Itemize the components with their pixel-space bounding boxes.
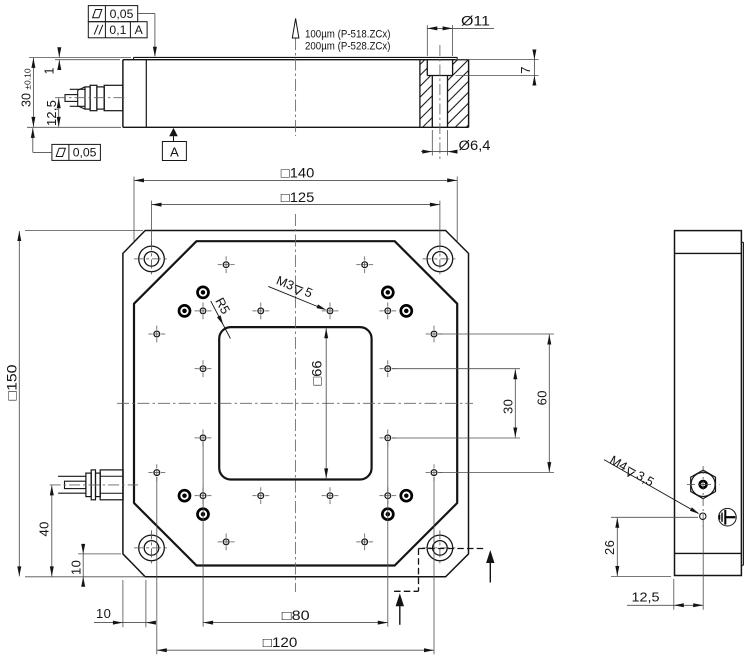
dim O11 extensions [426, 25, 428, 56]
svg-text:0,05: 0,05 [73, 146, 97, 160]
travel direction arrow [292, 19, 299, 39]
top view: vertical centerline [294, 214, 296, 592]
right view: air fitting hexagon [691, 470, 716, 499]
M3 hole (40,15) [385, 435, 391, 441]
counterbored hole (-40,-48) [198, 287, 209, 298]
corner screw hole 3 [139, 535, 165, 561]
svg-text:30: 30 [501, 399, 516, 414]
svg-text:12,5: 12,5 [44, 100, 59, 126]
dim 12.5 (side) [58, 98, 60, 127]
motion arrow bottom [399, 605, 401, 625]
svg-text:0,05: 0,05 [110, 7, 134, 21]
corner screw hole 4 [427, 535, 453, 561]
svg-text:26: 26 [602, 540, 617, 555]
M3 hole (30,60) [362, 539, 368, 545]
svg-text:□125: □125 [281, 190, 315, 205]
counterbored hole (48,40) [401, 490, 412, 501]
M3 hole (40,40) [385, 493, 391, 499]
reference dashes (corner screw datum) [419, 548, 484, 550]
svg-text:100µm (P-518.ZCx): 100µm (P-518.ZCx) [305, 28, 391, 40]
dim box125 [152, 204, 440, 206]
dim box120 extensions [156, 477, 158, 654]
dim box150 extensions [25, 230, 143, 232]
M3 hole (60,30) [431, 470, 437, 476]
dim 12.5 extensions [673, 579, 675, 610]
svg-text:0,1: 0,1 [109, 23, 126, 37]
dim 30 right [514, 369, 516, 437]
side view: connector rings [85, 87, 90, 109]
flatness frame leader [33, 151, 52, 153]
M3 hole (-40,40) [200, 493, 206, 499]
side view: through hole O6.4 walls [431, 76, 433, 128]
feature control frame (flatness 0.05 / parallelism 0.1 A) [88, 6, 147, 38]
dim 1 extension lower [55, 59, 120, 61]
dim 10 vertical [82, 546, 84, 554]
top view: connector rings [86, 473, 91, 497]
counterbored hole (48,-40) [401, 305, 412, 316]
M3 hole (-30,60) [223, 539, 229, 545]
dim 60 right [548, 335, 550, 473]
dim box66 (aperture) [325, 328, 327, 478]
M3 hole (-60,30) [154, 470, 160, 476]
dim 7 [533, 53, 535, 82]
leader M4 depth 3.5 [604, 460, 698, 514]
right view: body outline [675, 231, 742, 576]
dim 10 vertical extension [78, 553, 121, 555]
side view: hole centerline [439, 45, 441, 160]
dim box140 [134, 179, 457, 181]
svg-text:□150: □150 [5, 365, 20, 401]
dim box80 [203, 622, 388, 624]
top view: connector cables [58, 475, 86, 477]
right view: bottom chamfer edge [675, 552, 742, 554]
side view: section hatching [420, 60, 427, 128]
dim box120 [157, 649, 434, 651]
side view: connector body [104, 85, 123, 110]
svg-text:10: 10 [68, 560, 83, 575]
side view: connector centerline [55, 97, 127, 99]
svg-text:40: 40 [37, 521, 52, 536]
counterbored hole (-40,48) [198, 509, 209, 520]
M3 hole (40,-40) [385, 308, 391, 314]
svg-text:A: A [135, 23, 144, 37]
M3 hole (15,40) [327, 493, 333, 499]
svg-text:10: 10 [96, 606, 111, 621]
leader R5 [211, 301, 231, 339]
counterbored hole (40,48) [382, 509, 393, 520]
top view: outer base square with corner chamfers [123, 231, 469, 577]
M3 hole (-15,40) [258, 493, 264, 499]
side view: base body outline [123, 59, 469, 61]
side view: connector cables [70, 88, 85, 90]
top view: connector body [100, 470, 123, 500]
M3 hole (-40,-15) [200, 366, 206, 372]
dim 30 +-0.10 [32, 58, 34, 127]
dim box80 extensions [202, 442, 204, 627]
datum A flag [169, 128, 178, 136]
M3 hole (-60,-30) [154, 331, 160, 337]
M3 hole (-30,-60) [223, 262, 229, 268]
dim 1 (plate height) [58, 49, 60, 58]
svg-text:□66: □66 [309, 361, 324, 386]
M3 hole (60,-30) [431, 331, 437, 337]
svg-text:□120: □120 [263, 635, 298, 650]
motion arrow right [489, 562, 491, 583]
svg-text:12,5: 12,5 [632, 590, 660, 605]
M3 hole (40,-15) [385, 366, 391, 372]
flatness frame 0.05 (bottom) [52, 144, 101, 160]
dim 10 horizontal [94, 622, 123, 624]
side view: counterbore O11 [426, 60, 428, 76]
dim box140 extensions [133, 177, 135, 242]
right view: ground symbol [719, 508, 737, 526]
leader M3 depth 5 [268, 286, 323, 309]
svg-text:1: 1 [43, 68, 57, 75]
svg-text:□80: □80 [282, 608, 310, 623]
svg-text:A: A [170, 145, 179, 160]
svg-text:200µm (P-528.ZCx): 200µm (P-528.ZCx) [305, 40, 391, 52]
svg-text:7: 7 [518, 67, 533, 74]
top view: connector centerline [50, 484, 138, 486]
dim 12.5 [627, 604, 703, 606]
dim 30 +-0.10 extension bottom [27, 126, 121, 128]
dim O11 [427, 27, 494, 29]
M3 hole (-40,-40) [200, 308, 206, 314]
top view: horizontal centerline [117, 402, 473, 404]
corner screw hole 1 [139, 246, 165, 272]
dim 26 extensions [611, 516, 698, 518]
side view: moving platform top plate [134, 56, 458, 58]
M3 hole (-40,15) [200, 435, 206, 441]
top view: center aperture square 66 R5 [219, 327, 371, 479]
dim 7 extensions [456, 59, 539, 61]
counterbored hole (-48,40) [179, 490, 190, 501]
svg-text:30 ±0.10: 30 ±0.10 [20, 68, 34, 107]
dim 10 horizontal extensions [122, 580, 124, 627]
svg-text:Ø11: Ø11 [461, 13, 490, 28]
side view: section cut boundary [419, 60, 421, 128]
svg-text:60: 60 [535, 390, 550, 405]
dim 30 right extensions [392, 368, 520, 370]
dim 60 right extensions [438, 333, 554, 335]
dim 40 [51, 485, 53, 576]
counterbored hole (40,-48) [382, 287, 393, 298]
right view: protruding platform plate [741, 241, 743, 243]
M3 hole (30,-60) [362, 262, 368, 268]
dim box125 extensions [151, 201, 153, 246]
dim O6.4 [421, 151, 457, 153]
side view: connector pin [65, 95, 78, 102]
M3 hole (15,-40) [327, 308, 333, 314]
right view: M4 hole [700, 513, 706, 519]
side view: inner edge line [145, 60, 147, 128]
M3 hole (-15,-40) [258, 308, 264, 314]
counterbored hole (-48,-40) [179, 305, 190, 316]
fcf leader [138, 13, 155, 15]
dim 26 [616, 518, 618, 576]
top view: moving platform octagon [134, 241, 457, 565]
top view: connector pin [65, 481, 86, 488]
svg-text:□140: □140 [281, 166, 315, 181]
side view: center axis [295, 38, 297, 136]
svg-text:Ø6,4: Ø6,4 [459, 138, 492, 153]
dim box150 [18, 231, 20, 576]
dim 30 +-0.10 extension top [29, 56, 131, 58]
right view: fitting crosshair [687, 483, 720, 485]
side view: connector taper [78, 87, 85, 90]
corner screw hole 2 [427, 246, 453, 272]
right view: top chamfer edge [675, 252, 742, 254]
dim O6.4 extensions [431, 130, 433, 156]
